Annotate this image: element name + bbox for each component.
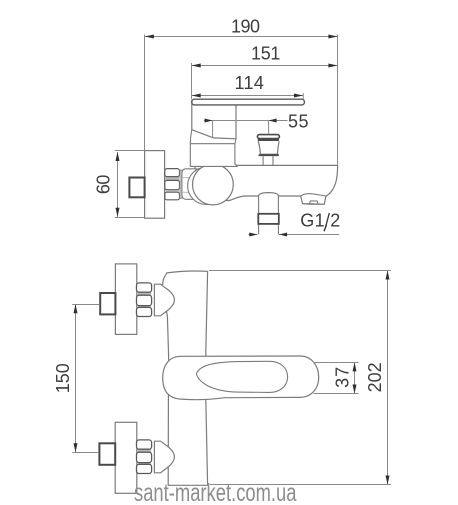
dim line 60 <box>115 151 144 218</box>
svg-text:60: 60 <box>94 175 114 195</box>
lever outer (front) <box>163 356 319 400</box>
lever inner (front) <box>196 361 287 392</box>
outlet nut G1/2 <box>258 214 279 224</box>
bottom hex nut (front) <box>137 449 151 453</box>
shower outlet pipe <box>259 196 279 234</box>
dim line 55 <box>204 121 288 138</box>
svg-text:37: 37 <box>332 367 352 388</box>
connector block <box>182 169 197 200</box>
top wall flange (front) <box>115 264 136 335</box>
handle lever blade <box>192 99 305 105</box>
G1/2 leader line <box>248 234 257 236</box>
svg-text:sant-market.com.ua: sant-market.com.ua <box>134 479 297 505</box>
svg-text:G1/2: G1/2 <box>300 211 340 231</box>
svg-text:114: 114 <box>234 73 264 93</box>
spout aerator <box>301 194 326 205</box>
wall pipe stub <box>129 178 144 198</box>
diverter knob <box>257 135 279 139</box>
handle base <box>192 100 236 139</box>
dim line 37 <box>314 362 359 393</box>
dim line 190 <box>145 35 338 166</box>
handle neck <box>190 144 237 167</box>
svg-text:151: 151 <box>251 43 281 63</box>
bottom wall flange (front) <box>115 422 137 493</box>
washer <box>180 170 182 198</box>
cartridge dome <box>193 164 234 205</box>
svg-text:202: 202 <box>365 362 385 392</box>
svg-text:55: 55 <box>288 112 309 132</box>
dim line 114 <box>192 93 304 99</box>
bottom eccentric dome (front) <box>154 441 174 473</box>
top eccentric dome (front) <box>154 284 174 316</box>
hex nut <box>165 177 179 181</box>
top pipe stub (front) <box>100 293 115 314</box>
front view body <box>162 271 207 485</box>
top hex nut (front) <box>137 292 151 296</box>
dim line 150 <box>72 304 99 452</box>
faucet body side view <box>195 165 338 204</box>
svg-text:190: 190 <box>231 17 260 37</box>
cartridge dome rear arc <box>188 167 225 204</box>
dim line 202 <box>209 271 391 485</box>
wall flange <box>145 151 165 219</box>
bottom pipe stub (front) <box>99 443 115 465</box>
dim line 151 <box>192 63 338 99</box>
svg-text:150: 150 <box>53 363 73 393</box>
